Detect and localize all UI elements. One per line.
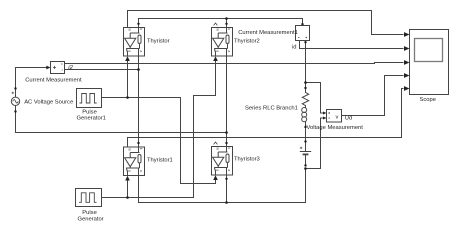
wire Thyristor1 m output to Scope input 5 (128, 89, 404, 147)
junction node gate2 (126, 196, 129, 199)
svg-text:Current Measurement1: Current Measurement1 (238, 30, 298, 36)
port Series RLC Branch1 top (304, 87, 306, 89)
port Thyristor3 m unconnected (214, 142, 218, 144)
wire DC- net: Thyristor1 a and Thyristor3 a to battery minus (139, 169, 306, 203)
svg-text:i2: i2 (68, 65, 73, 71)
port Thyristor3 k (225, 142, 227, 144)
svg-text:AC Voltage Source: AC Voltage Source (24, 100, 73, 106)
arrowhead Thyristor gate (125, 56, 130, 61)
thyristor Thyristor3 (212, 147, 233, 176)
pulse generator Pulse Generator1 (77, 89, 102, 108)
svg-text:Generator: Generator (78, 216, 104, 222)
port Thyristor3 a (225, 178, 227, 180)
svg-text:Current Measurement: Current Measurement (25, 78, 82, 84)
wire Pulse Generator1 to Thyristor gate and Thyristor3 gate (102, 98, 216, 184)
current measurement block Current Measurement (51, 62, 65, 74)
wire Thyristor m output to Scope input 1 (128, 11, 404, 35)
port Thyristor1 k (137, 142, 139, 144)
thyristor Thyristor2 (212, 28, 233, 57)
arrowhead Scope input 3 (404, 60, 410, 65)
port Current Measurement1 plus (301, 23, 303, 25)
wire node B vertical: Thyristor2 a to Thyristor3 k (226, 56, 228, 146)
arrowhead Thyristor3 gate (213, 175, 218, 180)
arrowhead Thyristor2 gate (213, 56, 218, 61)
port Thyristor2 m unconnected (214, 23, 218, 25)
svg-text:v: v (336, 114, 339, 120)
svg-text:Series RLC Branch1: Series RLC Branch1 (245, 105, 298, 111)
port battery minus (304, 164, 306, 166)
svg-text:Thyristor2: Thyristor2 (234, 38, 260, 44)
svg-text:Pulse: Pulse (82, 210, 97, 216)
wire id signal from Current Measurement1 to Scope input 2 (300, 41, 404, 49)
wire node D to Voltage Measurement plus (306, 83, 324, 114)
svg-text:id: id (292, 45, 297, 51)
port Thyristor2 k (225, 23, 227, 25)
junction node A (137, 68, 140, 71)
wire Current Measurement minus to node A (65, 69, 139, 71)
svg-text:Scope: Scope (420, 97, 436, 103)
port Current Measurement1 minus (304, 41, 306, 43)
junction node DC+ (225, 17, 228, 20)
current measurement block Current Measurement1 (296, 26, 310, 41)
thyristor Thyristor1 (124, 147, 145, 176)
wire Voltage Measurement minus to node E (306, 118, 324, 169)
wire DC+ net: Thyristor k up and across to Current Measurement1 (139, 19, 303, 28)
junction node DC- (225, 201, 228, 204)
port Series RLC Branch1 bottom (304, 126, 306, 128)
wire Thyristor gate stem (127, 61, 129, 98)
port battery plus (304, 140, 306, 142)
series rlc branch Series RLC Branch1 (302, 88, 309, 122)
svg-text:Generator1: Generator1 (77, 116, 106, 122)
pulse generator Pulse Generator (76, 189, 102, 207)
junction node gate1 (126, 96, 129, 99)
svg-text:Voltage Measurement: Voltage Measurement (307, 125, 364, 131)
svg-text:Thyristor1: Thyristor1 (147, 157, 173, 163)
junction node B (225, 131, 228, 134)
arrowhead Scope input 5 (404, 86, 410, 91)
svg-text:Pulse: Pulse (82, 109, 97, 115)
svg-text:Thyristor3: Thyristor3 (234, 156, 260, 162)
svg-text:Ud: Ud (345, 116, 352, 122)
wire Thyristor1 gate stem (127, 180, 129, 198)
port Thyristor k (137, 23, 139, 25)
arrowhead Scope input 1 (404, 32, 410, 37)
wire Ud signal from Voltage Measurement to Scope input 4 (341, 76, 404, 116)
wire node A vertical: Thyristor a to Thyristor1 k (138, 56, 140, 147)
arrowhead Voltage Measurement plus input (323, 112, 327, 115)
wire Current Measurement1 minus down to node D (305, 41, 307, 89)
dc voltage source battery (300, 147, 311, 166)
scope Scope (410, 30, 449, 95)
port AC source plus (14, 87, 16, 89)
arrowhead Scope input 4 (404, 73, 410, 78)
ac voltage source AC Voltage Source (11, 89, 19, 112)
voltage measurement block Voltage Measurement (327, 110, 342, 123)
wire Thyristor2 k stem to DC+ net (226, 19, 228, 28)
junction node E (304, 167, 307, 170)
wire node B: AC source return to Thyristor2/Thyristor3 (16, 106, 227, 133)
junction node D (304, 81, 307, 84)
svg-text:Thyristor: Thyristor (147, 38, 170, 44)
wire Thyristor3 a stem to DC- net (226, 175, 228, 203)
wire node D to battery plus through Series RLC Branch1 (305, 122, 307, 152)
wire i2 signal from Current Measurement to Scope input 3 (65, 63, 404, 64)
arrowhead Voltage Measurement minus input (323, 117, 327, 120)
arrowhead Current Measurement input (46, 66, 50, 70)
wire AC source plus to Current Measurement plus (16, 68, 48, 98)
arrowhead Thyristor1 gate (125, 176, 130, 181)
thyristor Thyristor (124, 28, 145, 57)
port AC source minus (14, 110, 16, 112)
wire Pulse Generator to Thyristor1 gate and Thyristor2 gate (102, 61, 216, 198)
arrowhead Scope input 2 (404, 46, 410, 51)
